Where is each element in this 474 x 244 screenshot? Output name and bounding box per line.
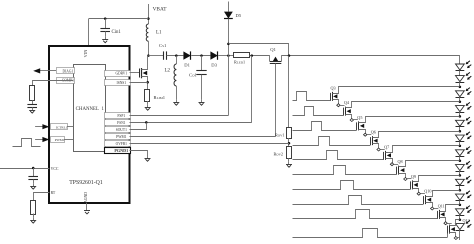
junction diamond Q8 [404,178,407,181]
svg-text:Q6: Q6 [371,130,376,135]
node P [288,54,291,57]
label Q7 [384,144,389,149]
ground L2 [173,99,179,105]
node LED tap 1 [459,86,462,89]
svg-text:D3: D3 [211,63,217,68]
ground Cin1 [102,37,108,43]
wire COMP R to C [32,100,34,104]
svg-text:ROV1: ROV1 [275,133,285,138]
transistor Q4 [344,107,351,116]
wire source Q5 [359,130,366,135]
pin COMP1 [57,78,75,84]
wire Rov1 tap [288,138,290,146]
svg-text:Q5: Q5 [357,115,362,120]
junction diamond Q4 [350,119,353,122]
node Cin1 junction [104,17,107,20]
transistor Q11 [438,210,445,219]
label Cs1 [159,43,167,48]
pin DIAG1 [57,68,75,74]
label Q11 [438,203,445,208]
wire FSP1 riser [228,56,230,116]
junction diamond Q3 [337,104,340,107]
wire drain Q5 [359,117,460,123]
transistor M1 gate wire [130,72,140,74]
label TPS92601-Q1 [69,180,103,186]
block CHANNEL 1 [74,65,106,152]
transistor Q8 [397,166,405,175]
resistor RLED1 [234,53,250,58]
pin FSN1 [105,120,131,126]
wire LED seg 6 [459,171,461,175]
node SW [147,54,150,57]
label RLED1 [234,60,245,65]
LED string LED9 [456,176,472,185]
wire Cs1 to L2 [167,55,184,57]
pin GDRV1 [105,71,131,77]
wire gate Q7 [293,151,384,160]
svg-text:CS1: CS1 [159,43,167,48]
svg-text:Q10: Q10 [424,189,431,194]
wire diamond link Q8 [407,178,411,180]
node LED tap 2 [459,100,462,103]
wire drain Q10 [426,191,460,197]
svg-text:ICTRL1: ICTRL1 [56,125,68,129]
label D5 [236,13,242,18]
resistor Rov1 [287,128,292,139]
wire D5 anode [228,2,230,12]
svg-text:ISNS1: ISNS1 [117,81,127,85]
IC TPS92601-Q1 outline [49,46,130,203]
svg-text:VIN: VIN [83,50,88,58]
svg-text:PWM1: PWM1 [55,138,65,142]
transistor Q3 [331,92,338,101]
wire LED seg 4 [459,142,461,146]
wire FSP1 row [130,115,229,117]
label Rov2 [274,152,284,157]
pin PWM1 [105,134,131,140]
wire FSN1 row [130,122,252,124]
ground RLIM1 [145,104,151,110]
svg-text:Q8: Q8 [398,159,403,164]
wire drain Q11 [440,205,460,212]
wire source Q10 [426,203,433,209]
svg-text:VCC: VCC [51,167,59,171]
LED string LED12 [456,220,472,230]
node VCC cap [32,167,35,170]
LED string LED8 [456,161,472,171]
wire gate Q11 [293,210,438,219]
LED string LED11 [456,206,472,216]
svg-text:Cin1: Cin1 [112,30,122,35]
resistor RT [31,201,36,215]
wire LED seg 10 [459,230,461,240]
pin FSP1 [105,113,131,119]
transistor M1 [140,56,148,90]
wire source Q8 [399,174,406,179]
ground AGND [84,208,90,214]
pin SOUT1 [105,127,131,133]
wire PGND1 [130,151,148,156]
wire diamond link Q10 [434,208,438,210]
wire gate Q5 [293,122,357,131]
junction diamond Q11 [444,222,447,225]
label Q3 [331,85,336,90]
wire VBAT to VIN [89,18,149,20]
junction diamond Q6 [377,148,380,151]
wire gate Q4 [293,107,344,116]
svg-text:DIAG1: DIAG1 [63,70,74,74]
node LED tap 7 [459,174,462,177]
wire gate Q8 [293,166,397,175]
junction diamond Q12 [454,237,457,240]
svg-text:TPS92601-Q1: TPS92601-Q1 [69,180,103,186]
wire RLIM1 gnd [147,101,149,104]
wire gate Q9 [293,181,411,190]
wire Q1 out [281,55,460,57]
label D3 [211,63,217,68]
svg-text:FSP1: FSP1 [117,114,125,118]
node ISNS [146,81,149,84]
wire LED seg 1 [459,97,461,101]
svg-text:CO1: CO1 [189,73,198,78]
pin VIN label [83,50,88,58]
inductor L1 [146,24,148,56]
arrow DIAG1 out [33,68,40,73]
wire diamond link Q3 [340,105,344,107]
label Q10 [424,189,431,194]
wire Rov feed [288,56,290,128]
wire source Q3 [333,100,339,106]
svg-text:D5: D5 [236,13,242,18]
wire diamond link Q4 [354,119,358,121]
transistor Q5 [357,121,365,130]
label Cin1 [112,30,122,35]
LED string LED5 [456,117,472,126]
label RLIM1 [154,95,166,100]
svg-text:RLIM1: RLIM1 [154,95,166,100]
pin AGND label [84,192,88,203]
wire diamond link Q9 [421,193,425,195]
pin PGND1 [105,148,131,154]
wire gate Q12 [293,229,448,238]
wire RT [33,214,35,218]
wire LED seg 5 [459,156,461,160]
ground COMP [29,107,35,113]
pin PWM1 [35,137,73,143]
wire D1 to Co1 [191,55,210,57]
wire LED seg 9 [459,215,461,219]
wire Q1 gate riser [275,64,277,137]
wire source Q4 [346,115,352,120]
resistor COMP RC [30,86,35,101]
wire LED seg 7 [459,186,461,190]
inductor L2 [174,56,176,100]
svg-text:CHANNEL 1: CHANNEL 1 [76,107,105,112]
label Q12 [463,218,470,223]
wire drain Q8 [399,161,460,167]
wire drain Q4 [346,102,460,108]
label Q8 [398,159,403,164]
wire diamond link Q7 [394,164,398,166]
ground Co1 [199,99,205,105]
ground RT [30,217,36,223]
svg-text:Q7: Q7 [384,144,389,149]
wire D3 out [218,55,233,57]
svg-text:RLED1: RLED1 [234,60,245,65]
svg-text:VBAT: VBAT [153,7,168,13]
LED string LED3 [456,88,472,98]
capacitor Co1 [196,56,206,100]
wire SW to Cs1 [148,55,163,57]
LED string LED1 [456,61,472,71]
wire gate Q3 [293,92,331,101]
wire COMP1 [33,81,74,86]
label CHANNEL 1 [76,107,105,112]
svg-text:Q3: Q3 [331,85,336,90]
node LED tap 8 [459,189,462,192]
pin ICTRL1 [35,124,73,130]
ground Rov2 [286,161,292,167]
node LED tap 9 [459,204,462,207]
pin OVFB1 [105,141,131,147]
LED string LED7 [456,147,472,157]
capacitor Cs1 [164,51,167,59]
label L1 [156,31,162,36]
junction diamond Q5 [364,133,367,136]
svg-text:D1: D1 [184,63,190,68]
wire gate Q10 [293,196,424,205]
wire FSN1 riser [251,56,253,123]
svg-text:Q12: Q12 [463,218,470,223]
LED string LED2 [456,72,472,82]
wire drain Q3 [333,87,460,94]
svg-text:PWM1: PWM1 [116,135,127,139]
junction diamond Q10 [431,207,434,210]
label Q9 [411,174,416,179]
svg-text:FSN1: FSN1 [117,121,126,125]
ground PGND1 [145,155,151,161]
resistor RLIM1 [145,90,150,102]
node LED tap 10 [459,218,462,221]
node LED tap 3 [459,115,462,118]
label Q5 [357,115,362,120]
wire SOUT1 row [130,123,147,130]
wire Rov2 gnd [288,158,290,161]
wire VBAT vertical [148,4,150,24]
label L2 [165,69,171,74]
capacitor VCC [28,168,38,183]
svg-text:OVFB1: OVFB1 [116,142,128,146]
svg-text:SOUT1: SOUT1 [116,128,127,132]
capacitor Cin1 [100,19,110,37]
wire gate Q6 [293,137,371,146]
wire LED string top [459,56,461,64]
junction diamond Q9 [417,192,420,195]
transistor Q9 [411,180,418,189]
transistor Q10 [424,195,432,204]
junction diamond Q7 [390,163,393,166]
resistor Rov2 [287,147,292,159]
LED string LED6 [456,132,472,142]
ground VCC [30,183,36,189]
wire DIAG1 [40,70,56,72]
pin VCC [0,167,59,171]
svg-text:Q11: Q11 [438,203,445,208]
label D1 [184,63,190,68]
wire source Q6 [373,144,379,150]
svg-text:L1: L1 [156,31,162,36]
svg-text:GDRV1: GDRV1 [115,72,127,76]
wire source Q12 [450,233,456,238]
svg-text:RT: RT [51,191,56,195]
node rail1 [227,43,230,46]
LED string LED4 [456,102,472,112]
node SOUT join [145,121,148,124]
wire ISNS1 [130,82,148,84]
label Q1 [270,47,276,52]
node FSN1 [251,54,254,57]
svg-text:AGND: AGND [84,192,88,203]
wire rail1 [229,44,289,56]
node Co1 [200,54,203,57]
label VBAT [153,7,168,13]
wire drain Q6 [373,132,460,138]
wire source Q9 [413,189,419,194]
pin RT [34,191,56,200]
svg-text:Q4: Q4 [344,100,350,105]
node OVFB tap [288,142,291,145]
svg-text:Q9: Q9 [411,174,416,179]
pin ISNS1 [105,80,131,86]
wire VIN drop [88,19,90,46]
transistor Q7 [384,151,392,160]
LED string LED10 [456,191,472,201]
svg-text:L2: L2 [165,69,171,74]
label Q6 [371,130,376,135]
wire LED1-LED2 [459,71,461,76]
diode D5 [224,12,233,19]
wire LED seg 3 [459,127,461,131]
wire LED seg 2 [459,112,461,116]
wire drain Q12 [450,220,460,226]
wire PWM1 row [130,136,276,138]
waveform PWM input [13,139,41,147]
wire source Q11 [440,218,446,224]
wire RLED1 out [250,55,270,57]
wire OVFB1 row [130,143,290,145]
svg-text:ROV2: ROV2 [274,152,284,157]
diode D3 [210,51,217,59]
diode D1 [183,51,190,59]
svg-text:PGND1: PGND1 [114,148,128,153]
wire diamond link Q11 [447,223,451,225]
wire source Q7 [386,159,393,165]
node LED tap 6 [459,159,462,162]
node L2 [175,54,178,57]
wire diamond link Q6 [380,149,384,151]
node LED tap 4 [459,130,462,133]
transistor Q12 [448,225,455,234]
wire drain Q7 [386,146,460,153]
node VBAT junction [147,17,150,20]
wire LED seg 8 [459,201,461,205]
svg-text:Q1: Q1 [270,47,276,52]
wire D5 cathode [228,19,230,56]
node LED feed [227,54,230,57]
wire LED2-tap1 [459,82,461,87]
transistor Q1 [270,56,282,64]
label Co1 [189,73,198,78]
capacitor COMP [27,105,37,108]
wire diamond link Q5 [367,134,371,136]
wire AGND [86,203,88,208]
transistor Q6 [371,136,378,145]
label Rov1 [275,133,285,138]
wire source join Q12 [458,237,460,239]
wire drain Q9 [413,176,460,182]
label Q4 [344,100,350,105]
node LED tap 5 [459,145,462,148]
